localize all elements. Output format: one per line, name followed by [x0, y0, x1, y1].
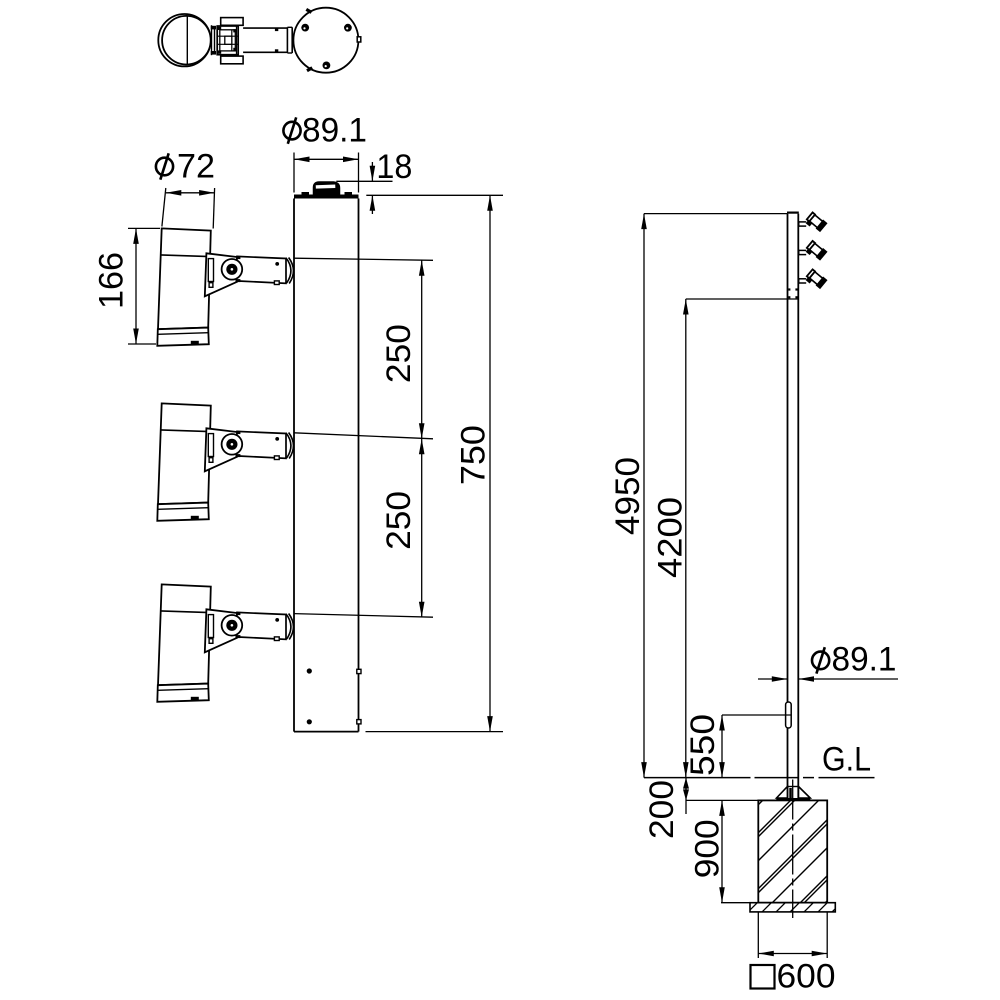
- svg-text:G.L: G.L: [822, 741, 871, 779]
- svg-text:900: 900: [689, 819, 727, 878]
- svg-text:72: 72: [177, 148, 215, 186]
- svg-text:750: 750: [455, 425, 493, 485]
- svg-text:89.1: 89.1: [302, 112, 367, 150]
- svg-text:4950: 4950: [609, 457, 647, 535]
- svg-text:600: 600: [777, 958, 836, 996]
- svg-text:250: 250: [380, 491, 418, 550]
- svg-text:550: 550: [684, 714, 722, 776]
- svg-text:18: 18: [376, 148, 412, 186]
- svg-text:89.1: 89.1: [832, 641, 897, 679]
- svg-text:4200: 4200: [652, 497, 690, 578]
- svg-text:250: 250: [380, 324, 418, 383]
- svg-text:200: 200: [643, 780, 681, 839]
- svg-text:166: 166: [93, 252, 131, 309]
